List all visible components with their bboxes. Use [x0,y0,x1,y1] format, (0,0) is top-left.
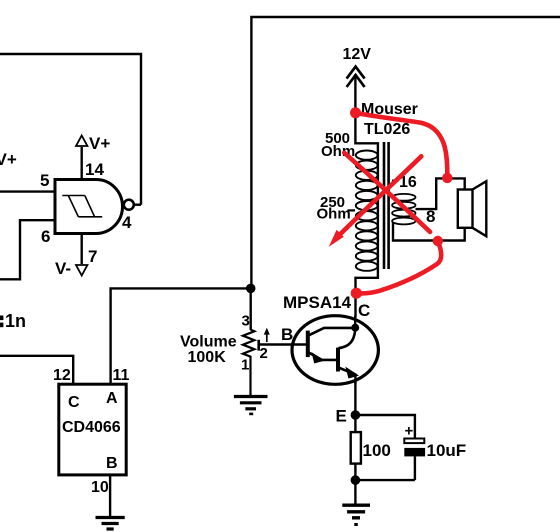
svg-text:1: 1 [241,357,249,374]
transformer secondary winding [392,194,415,225]
Q1 emitter stroke [309,353,338,360]
svg-text:E: E [336,407,347,426]
speaker LS1 [458,181,487,236]
svg-text:7: 7 [88,247,97,266]
svg-text:100K: 100K [188,349,227,366]
svg-text:TL026: TL026 [364,121,410,138]
svg-text:4: 4 [122,213,132,232]
wire: pin 12 horizontal from left edge [0,356,73,384]
transformer core [384,142,389,269]
svg-text:1n: 1n [5,311,26,331]
svg-text:100: 100 [363,441,391,460]
svg-text:3: 3 [242,313,250,330]
svg-text:CD4066: CD4066 [62,419,121,436]
svg-text:B: B [281,325,293,344]
node E junction dot [351,410,361,420]
capacitor C1 10uF [404,423,425,481]
svg-text:A: A [106,390,118,407]
red wire: speaker bottom to collector node [351,236,443,299]
svg-text:14: 14 [85,160,104,179]
wiper bar [257,340,260,351]
V+ arrow [76,136,87,147]
op-amp U1 NAND gate CD4093 body [55,180,123,234]
svg-text:V+: V+ [89,134,110,153]
svg-text:11: 11 [113,367,130,384]
svg-text:5: 5 [40,171,49,190]
Q2 emitter stroke [338,368,356,375]
wire: secondary bottom to speaker bottom [393,222,465,241]
pin 10 wire [109,475,111,517]
pin 5 wire [0,190,55,192]
V- arrow [76,265,87,276]
svg-text:MPSA14: MPSA14 [283,293,352,312]
wire: long vertical supply rail and top rail [251,17,560,289]
resistor R2 100 body [351,415,361,480]
svg-text:12: 12 [53,367,71,384]
svg-text:V-: V- [55,259,71,278]
svg-text:10uF: 10uF [427,441,467,460]
wire: top-left horizontal from NAND output to left edge [0,54,141,205]
hysteresis symbol [62,196,102,217]
Q2 collector stroke [338,330,355,348]
16 tap dash [392,180,399,182]
Q1 base bar [306,331,310,358]
wire: E to cap top [355,415,415,438]
U2 CD4066 box [59,384,126,475]
collector wire into circle [354,316,356,328]
wire junction to pot top [249,288,251,330]
wire: bottom rail E [355,479,415,481]
wire: base from pot wiper [259,343,308,345]
12V power chevron symbol [347,67,365,87]
ground CD4066 [96,518,125,530]
node junction dot bottom [351,475,361,485]
capacitor label :1n left edge [0,311,26,331]
wire: pin 11 to junction [111,288,251,384]
wire: to ground [354,480,356,504]
output bubble pin 4 [124,200,134,210]
wire: 12V to transformer primary top [355,74,378,270]
svg-text:Ohm: Ohm [317,206,351,223]
wire: output bubble to corner [134,203,141,205]
transformer T1 primary winding [356,151,378,271]
svg-text:12V: 12V [343,46,372,63]
250 Ohm tap dash [348,209,356,211]
node junction dot at pot top [246,284,256,294]
wire: emitter to E node [354,382,356,415]
svg-text:B: B [106,455,118,472]
wire: primary bottom to collector node [356,270,378,318]
svg-text:2: 2 [260,345,268,362]
svg-text:6: 6 [41,227,50,246]
svg-text:V+: V+ [0,150,17,169]
red wire: 12V node to speaker top [350,107,452,183]
svg-text:+: + [405,423,414,440]
red X stroke 2 with arrowhead [329,156,422,247]
transistor Q1 MPSA14 darlington [292,316,378,385]
svg-text:C: C [358,301,370,320]
svg-text:10: 10 [91,479,109,496]
ground emitter [342,505,370,526]
pin 14 wire [80,147,82,180]
wiper up arrow [266,332,268,343]
pot zigzag [243,330,255,396]
Q2 base bar [336,348,340,372]
red X stroke 1 over transformer [344,153,430,232]
pin 6 wire [0,220,55,279]
svg-text:C: C [68,394,80,411]
pin 7 wire [80,234,82,265]
volume pot R1 [243,288,270,395]
wire: 8 tap to speaker top [416,178,465,209]
Q1 collector stroke [309,328,355,335]
svg-text:Volume: Volume [180,334,237,351]
ground pot [234,397,268,416]
